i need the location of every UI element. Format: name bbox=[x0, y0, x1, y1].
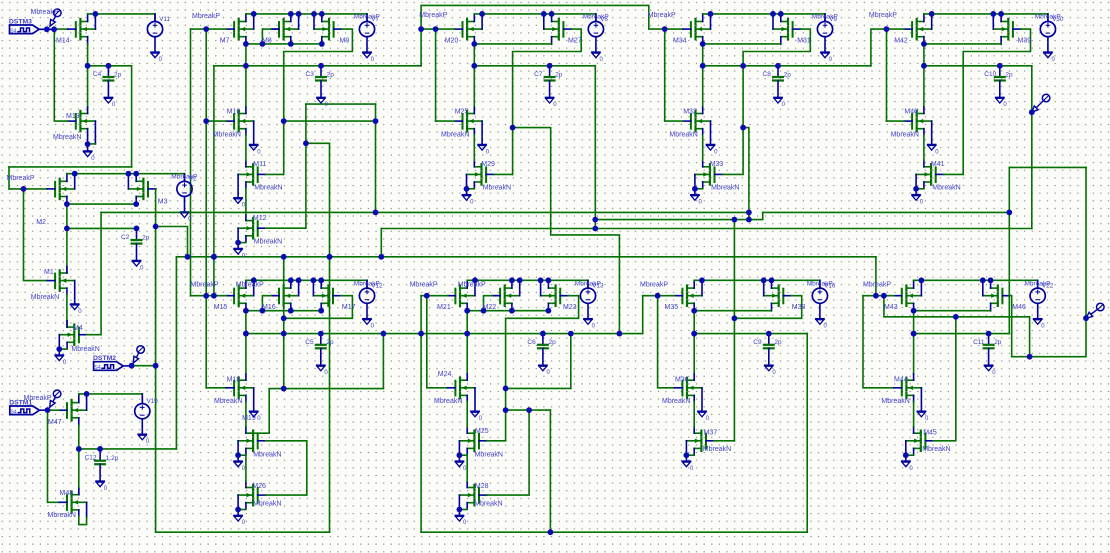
svg-text:2p: 2p bbox=[1005, 71, 1013, 78]
svg-text:C10: C10 bbox=[984, 71, 996, 78]
svg-text:MbreakN: MbreakN bbox=[662, 398, 690, 405]
svg-text:MbreakN: MbreakN bbox=[483, 184, 511, 191]
svg-text:2p: 2p bbox=[994, 339, 1002, 346]
svg-text:V13: V13 bbox=[592, 283, 604, 290]
svg-text:2p: 2p bbox=[549, 339, 557, 346]
svg-text:MbreakP: MbreakP bbox=[869, 12, 897, 19]
svg-text:M25: M25 bbox=[475, 428, 489, 435]
svg-text:M32: M32 bbox=[683, 109, 697, 116]
svg-text:M43: M43 bbox=[884, 304, 898, 311]
svg-text:1.2p: 1.2p bbox=[106, 455, 119, 462]
svg-text:2p: 2p bbox=[114, 71, 122, 78]
svg-text:S4: S4 bbox=[10, 28, 16, 34]
svg-text:M13: M13 bbox=[66, 113, 80, 120]
svg-text:DSTM2: DSTM2 bbox=[93, 355, 116, 362]
svg-text:M45: M45 bbox=[923, 429, 937, 436]
svg-text:V16: V16 bbox=[824, 283, 836, 290]
svg-text:MbreakP: MbreakP bbox=[31, 9, 59, 16]
svg-text:MbreakN: MbreakN bbox=[253, 500, 281, 507]
svg-text:V11: V11 bbox=[159, 16, 170, 23]
svg-text:S4: S4 bbox=[11, 409, 17, 415]
svg-text:M41: M41 bbox=[931, 161, 945, 168]
svg-text:M33: M33 bbox=[710, 161, 724, 168]
svg-text:MbreakP: MbreakP bbox=[24, 395, 52, 402]
svg-text:MbreakP: MbreakP bbox=[640, 282, 668, 289]
svg-text:C4: C4 bbox=[93, 71, 102, 78]
svg-text:M21: M21 bbox=[437, 304, 451, 311]
svg-text:2p: 2p bbox=[142, 235, 150, 242]
svg-text:2p: 2p bbox=[774, 339, 782, 346]
svg-text:MbreakP: MbreakP bbox=[236, 282, 264, 289]
svg-text:MbreakP: MbreakP bbox=[7, 175, 35, 182]
svg-text:M47: M47 bbox=[48, 419, 62, 426]
svg-text:M29: M29 bbox=[481, 161, 495, 168]
svg-text:2p: 2p bbox=[327, 71, 335, 78]
svg-text:MbreakP: MbreakP bbox=[458, 282, 486, 289]
svg-text:C6: C6 bbox=[527, 339, 536, 346]
svg-text:M24: M24 bbox=[438, 371, 452, 378]
svg-text:M20: M20 bbox=[445, 38, 459, 45]
svg-text:M19: M19 bbox=[242, 415, 256, 422]
svg-text:V10: V10 bbox=[147, 398, 159, 405]
svg-text:M12: M12 bbox=[253, 215, 267, 222]
svg-text:2p: 2p bbox=[326, 339, 334, 346]
svg-text:M10: M10 bbox=[227, 109, 241, 116]
svg-text:C8: C8 bbox=[763, 71, 772, 78]
svg-text:M9: M9 bbox=[340, 38, 350, 45]
svg-text:MbreakN: MbreakN bbox=[703, 446, 731, 453]
svg-text:M31: M31 bbox=[797, 38, 811, 45]
svg-text:V7: V7 bbox=[371, 16, 379, 23]
svg-text:M27: M27 bbox=[568, 38, 582, 45]
svg-text:M42: M42 bbox=[894, 38, 908, 45]
svg-text:M14: M14 bbox=[56, 38, 70, 45]
svg-text:M18: M18 bbox=[227, 376, 241, 383]
svg-text:MbreakN: MbreakN bbox=[48, 512, 76, 519]
svg-text:MbreakN: MbreakN bbox=[214, 398, 242, 405]
svg-text:M28: M28 bbox=[475, 483, 489, 490]
svg-text:MbreakN: MbreakN bbox=[253, 451, 281, 458]
svg-text:C3: C3 bbox=[306, 71, 315, 78]
svg-text:C2: C2 bbox=[121, 234, 130, 241]
svg-text:V30: V30 bbox=[1052, 16, 1064, 23]
svg-text:M11: M11 bbox=[253, 161, 266, 168]
svg-text:M35: M35 bbox=[665, 304, 679, 311]
svg-text:M44: M44 bbox=[894, 376, 908, 383]
svg-text:MbreakN: MbreakN bbox=[213, 132, 241, 139]
svg-text:M36: M36 bbox=[675, 376, 689, 383]
svg-text:M3: M3 bbox=[158, 198, 168, 205]
svg-text:MbreakN: MbreakN bbox=[53, 134, 81, 141]
svg-text:M25: M25 bbox=[455, 109, 469, 116]
svg-text:C12: C12 bbox=[85, 455, 97, 462]
svg-text:V8: V8 bbox=[600, 16, 608, 23]
svg-text:2p: 2p bbox=[555, 71, 563, 78]
svg-text:M15: M15 bbox=[214, 304, 228, 311]
svg-text:C7: C7 bbox=[534, 71, 543, 78]
svg-text:M48: M48 bbox=[60, 490, 74, 497]
svg-text:MbreakN: MbreakN bbox=[71, 346, 99, 353]
svg-text:V2: V2 bbox=[189, 176, 197, 183]
svg-text:MbreakN: MbreakN bbox=[254, 239, 282, 246]
svg-text:MbreakN: MbreakN bbox=[475, 451, 503, 458]
svg-text:MbreakP: MbreakP bbox=[191, 282, 219, 289]
svg-text:M37: M37 bbox=[704, 429, 718, 436]
svg-text:V22: V22 bbox=[1042, 283, 1054, 290]
svg-text:MbreakN: MbreakN bbox=[922, 446, 950, 453]
svg-text:M2: M2 bbox=[36, 219, 46, 226]
svg-text:M40: M40 bbox=[904, 109, 918, 116]
svg-text:MbreakN: MbreakN bbox=[932, 184, 960, 191]
svg-text:MbreakN: MbreakN bbox=[441, 132, 469, 139]
svg-text:DSTM3: DSTM3 bbox=[9, 18, 32, 25]
svg-text:M8: M8 bbox=[262, 38, 272, 45]
svg-text:C5: C5 bbox=[305, 339, 314, 346]
svg-text:M39: M39 bbox=[1018, 38, 1032, 45]
svg-text:M26: M26 bbox=[252, 483, 266, 490]
svg-text:M34: M34 bbox=[673, 38, 687, 45]
svg-text:MbreakP: MbreakP bbox=[863, 282, 891, 289]
svg-text:M46: M46 bbox=[1012, 304, 1026, 311]
svg-text:M23: M23 bbox=[563, 304, 577, 311]
svg-text:2p: 2p bbox=[784, 71, 792, 78]
svg-text:C9: C9 bbox=[753, 339, 762, 346]
svg-text:MbreakN: MbreakN bbox=[669, 132, 697, 139]
svg-text:M4: M4 bbox=[73, 325, 83, 332]
svg-text:MbreakP: MbreakP bbox=[648, 12, 676, 19]
svg-text:MbreakN: MbreakN bbox=[881, 398, 909, 405]
svg-text:C11: C11 bbox=[973, 339, 985, 346]
svg-text:MbreakP: MbreakP bbox=[419, 12, 447, 19]
svg-text:MbreakN: MbreakN bbox=[31, 294, 59, 301]
svg-text:MbreakN: MbreakN bbox=[711, 184, 739, 191]
svg-text:MbreakN: MbreakN bbox=[474, 500, 502, 507]
svg-text:V9: V9 bbox=[829, 16, 837, 23]
svg-text:M1: M1 bbox=[44, 269, 54, 276]
svg-text:M17: M17 bbox=[342, 304, 356, 311]
svg-text:S4: S4 bbox=[94, 365, 100, 371]
svg-text:MbreakN: MbreakN bbox=[434, 398, 462, 405]
svg-text:MbreakN: MbreakN bbox=[254, 185, 282, 192]
svg-text:V12: V12 bbox=[371, 283, 383, 290]
svg-text:MbreakP: MbreakP bbox=[410, 282, 438, 289]
svg-text:M16: M16 bbox=[262, 304, 276, 311]
svg-text:M22: M22 bbox=[483, 304, 497, 311]
svg-text:M7: M7 bbox=[220, 38, 230, 45]
svg-text:MbreakN: MbreakN bbox=[891, 132, 919, 139]
svg-text:MbreakP: MbreakP bbox=[192, 13, 220, 20]
svg-text:M38: M38 bbox=[792, 304, 806, 311]
